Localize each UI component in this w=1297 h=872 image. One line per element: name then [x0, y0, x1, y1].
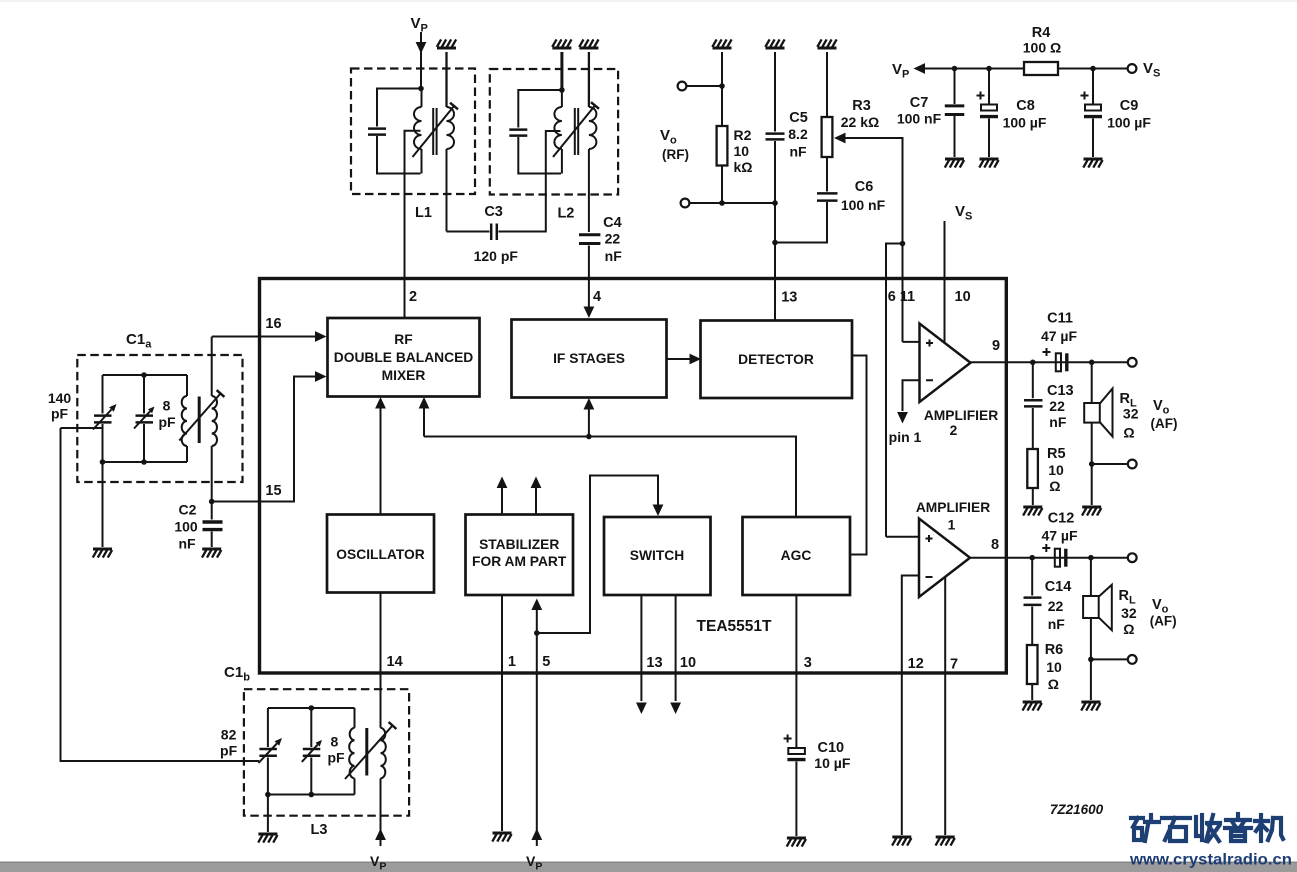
svg-text:www.crystalradio.cn: www.crystalradio.cn — [1129, 852, 1292, 869]
capacitor C7 — [954, 69, 956, 105]
C11 plus sign — [1043, 348, 1051, 356]
ground below pin 7 — [936, 836, 955, 839]
wire speaker to lower terminal — [1091, 423, 1093, 505]
svg-text:13: 13 — [646, 655, 662, 671]
watermark logo text (crystalradio) — [1131, 814, 1283, 841]
ground above R3 — [818, 47, 837, 50]
ground below C9 — [1084, 158, 1103, 161]
C1b junction dots — [309, 705, 315, 711]
svg-text:C8: C8 — [1016, 98, 1035, 114]
L3 secondary / pin 14 wire — [380, 593, 382, 728]
wire C3 to L2 tap — [499, 131, 561, 232]
svg-text:47 µF: 47 µF — [1041, 328, 1078, 344]
svg-text:pF: pF — [327, 749, 345, 765]
svg-text:120 pF: 120 pF — [474, 248, 519, 264]
wire lower terminal to pin13 line — [690, 202, 776, 204]
svg-text:100 Ω: 100 Ω — [1023, 40, 1061, 56]
wire junction to fixed capacitor — [377, 89, 421, 127]
ground below C10 — [787, 837, 806, 840]
svg-text:9: 9 — [992, 338, 1000, 354]
wire ground to R2 — [721, 52, 723, 126]
svg-text:C9: C9 — [1120, 98, 1139, 114]
capacitor C11 (electrolytic, series) — [1056, 353, 1061, 371]
ground below C7 — [945, 158, 964, 161]
svg-text:47 µF: 47 µF — [1041, 528, 1078, 544]
capacitor C8 (electrolytic) — [988, 69, 990, 105]
svg-text:8: 8 — [991, 537, 999, 553]
C1b inner frame top — [268, 707, 355, 709]
wire L1 secondary to C3 — [447, 231, 490, 233]
tuned circuit box L2 (dashed) — [490, 69, 618, 195]
antenna coil secondary — [211, 337, 213, 397]
node pin15/C2 — [209, 499, 215, 505]
svg-text:15: 15 — [265, 483, 281, 499]
variable capacitor 82 pF — [267, 708, 269, 747]
capacitor C6 — [817, 192, 838, 195]
output terminal lower 2 — [1128, 655, 1137, 664]
wire capacitor to tank bottom — [377, 136, 421, 174]
node: L1 top junction — [418, 86, 424, 92]
svg-text:C3: C3 — [484, 204, 503, 220]
block: SWITCH — [604, 517, 711, 595]
svg-text:pin 1: pin 1 — [889, 429, 922, 445]
svg-text:14: 14 — [387, 654, 403, 670]
output terminal upper 2 — [1128, 460, 1137, 469]
svg-text:L2: L2 — [557, 206, 574, 222]
svg-text:C12: C12 — [1048, 511, 1075, 527]
variable capacitor 8 pF (C1b) — [310, 708, 312, 747]
svg-text:32: 32 — [1121, 605, 1137, 621]
ground below C1a — [102, 462, 104, 547]
terminal circle lower — [681, 199, 690, 208]
C1a inner frame top — [103, 374, 188, 376]
svg-text:10: 10 — [1046, 659, 1062, 675]
loudspeaker RL lower — [1090, 558, 1092, 596]
svg-text:R3: R3 — [852, 98, 871, 114]
svg-text:R6: R6 — [1045, 642, 1064, 658]
wire ground to R3 — [826, 52, 828, 117]
ground above C5 — [766, 47, 785, 50]
ground below speaker lower — [1081, 701, 1100, 704]
svg-text:2: 2 — [950, 423, 958, 438]
wire speaker to lower terminal (amp1) — [1090, 618, 1092, 700]
svg-text:100 µF: 100 µF — [1003, 115, 1047, 131]
svg-text:7Z21600: 7Z21600 — [1050, 802, 1104, 817]
svg-text:L1: L1 — [415, 205, 432, 221]
wire pin5 node to SWITCH — [537, 476, 658, 634]
wire pin 11 to amp2 + input — [903, 341, 920, 343]
svg-text:DETECTOR: DETECTOR — [738, 352, 814, 367]
svg-text:OSCILLATOR: OSCILLATOR — [336, 547, 424, 562]
block: DETECTOR — [701, 321, 853, 399]
svg-text:10 µF: 10 µF — [814, 755, 851, 771]
ground below C2 — [202, 548, 221, 551]
variable capacitor 8 pF (C1a) — [143, 375, 145, 414]
svg-text:22: 22 — [1049, 398, 1065, 414]
wire R6 to ground — [1031, 684, 1033, 700]
svg-text:1: 1 — [948, 518, 956, 533]
wire pin 16 from C1a to mixer — [212, 336, 316, 338]
output terminal upper 1 — [1128, 358, 1137, 367]
svg-text:SWITCH: SWITCH — [630, 548, 684, 563]
C12 plus sign — [1042, 544, 1050, 552]
VP arrow into pin 5 — [531, 829, 542, 841]
C1b inner frame bottom — [268, 794, 355, 796]
wire C6 bottom to pin 13 line — [775, 202, 827, 243]
oscillator coil L3 primary — [354, 708, 356, 728]
svg-text:C13: C13 — [1047, 383, 1074, 399]
svg-text:C10: C10 — [818, 740, 845, 756]
amp2 output wire pin 9 — [971, 361, 1128, 363]
wire terminal to R2 top — [687, 85, 723, 87]
capacitor C12 (electrolytic, series) — [1055, 549, 1060, 567]
L3 adjust arrow — [345, 726, 393, 780]
wire C4 to pin 4 and IF STAGES — [588, 246, 590, 308]
svg-text:FOR AM PART: FOR AM PART — [472, 554, 567, 569]
ground above L2 primary — [552, 47, 571, 50]
svg-text:R5: R5 — [1047, 446, 1066, 462]
ground below C1b — [267, 795, 269, 833]
svg-text:Ω: Ω — [1048, 676, 1059, 692]
L1 core — [432, 108, 434, 155]
capacitor in L1 tank — [368, 127, 386, 130]
C10 plus sign — [784, 735, 792, 743]
svg-text:8.2: 8.2 — [788, 126, 808, 142]
svg-text:AMPLIFIER: AMPLIFIER — [916, 500, 990, 515]
wire R2 bottom — [721, 166, 723, 204]
svg-text:(RF): (RF) — [662, 147, 689, 162]
antenna coil adjust arrow — [179, 394, 220, 441]
pin 6 jog — [900, 241, 906, 247]
SWITCH pin 13 wire — [640, 595, 642, 701]
L3 core — [365, 728, 368, 776]
wire junction to L2 fixed capacitor — [518, 90, 562, 128]
bottom gray bar — [0, 862, 1297, 872]
svg-text:2: 2 — [409, 289, 417, 305]
svg-text:16: 16 — [265, 316, 281, 332]
svg-text:7: 7 — [950, 657, 958, 673]
svg-text:nF: nF — [789, 144, 807, 160]
VS terminal — [1128, 64, 1137, 73]
wire 140pF input — [61, 427, 103, 429]
svg-text:Ω: Ω — [1049, 478, 1060, 494]
svg-text:nF: nF — [1048, 616, 1066, 632]
svg-text:82: 82 — [221, 727, 237, 743]
ground below C8 — [980, 158, 999, 161]
ground above L1 secondary — [437, 47, 456, 50]
VP arrow — [914, 63, 926, 74]
svg-text:nF: nF — [1049, 414, 1067, 430]
wire VS to pin 10 / AMPLIFIER 2 — [944, 221, 946, 342]
tuned circuit box L1 (dashed) — [351, 69, 475, 195]
wire VP down to L1 — [420, 32, 422, 89]
node C14 tap (lower) — [1029, 555, 1035, 561]
svg-text:10: 10 — [680, 655, 696, 671]
capacitor C10 (electrolytic) — [788, 748, 805, 754]
svg-text:(AF): (AF) — [1150, 614, 1177, 629]
svg-text:22: 22 — [605, 231, 621, 247]
svg-text:4: 4 — [593, 289, 601, 305]
svg-text:10: 10 — [1048, 462, 1064, 478]
resistor R6 — [1027, 645, 1038, 684]
C8 plus sign — [977, 92, 985, 100]
wire capacitor to L2 tank bottom — [518, 137, 561, 174]
svg-text:Ω: Ω — [1123, 425, 1134, 441]
wire ground to L2 top junction — [560, 52, 563, 90]
capacitor C5 — [766, 132, 785, 135]
svg-text:100 nF: 100 nF — [841, 197, 886, 213]
svg-text:STABILIZER: STABILIZER — [479, 537, 559, 552]
svg-text:R2: R2 — [734, 127, 752, 143]
wire amp2 - input to pin 1 arrow — [903, 380, 920, 411]
block: AGC — [743, 517, 851, 595]
C9 plus sign — [1081, 92, 1089, 100]
DETECTOR to AGC wire — [850, 356, 867, 555]
block: OSCILLATOR — [327, 515, 434, 593]
svg-text:6: 6 — [888, 289, 896, 305]
svg-text:C5: C5 — [789, 110, 808, 126]
L2 secondary winding — [588, 52, 590, 107]
L1 tap wire to pin 2 — [405, 131, 421, 318]
ground above L2 secondary — [579, 47, 598, 50]
svg-text:12: 12 — [908, 656, 924, 672]
antenna coil core — [198, 397, 201, 444]
svg-text:MIXER: MIXER — [382, 368, 426, 383]
node C13 tap (upper) — [1030, 360, 1036, 366]
svg-text:10: 10 — [734, 143, 750, 159]
svg-text:C4: C4 — [603, 215, 622, 231]
AGC pin 3 wire — [795, 595, 797, 747]
inductor L2 primary winding — [561, 90, 563, 107]
SWITCH pin 10 wire — [675, 595, 677, 701]
svg-text:32: 32 — [1123, 406, 1139, 422]
node R2 top — [719, 83, 725, 89]
svg-text:pF: pF — [158, 414, 176, 430]
node feedback / IF arrow — [586, 434, 592, 440]
node C9 — [1090, 66, 1096, 72]
C1a inner frame bottom — [103, 461, 188, 463]
block: RF DOUBLE BALANCED MIXER — [328, 318, 480, 397]
op-amp AMPLIFIER 1 — [919, 519, 970, 598]
svg-text:Ω: Ω — [1123, 621, 1134, 637]
svg-text:IF STAGES: IF STAGES — [553, 351, 625, 366]
svg-text:3: 3 — [804, 655, 812, 671]
svg-text:pF: pF — [220, 743, 238, 759]
svg-text:140: 140 — [48, 390, 72, 406]
svg-text:C11: C11 — [1047, 311, 1073, 327]
svg-text:10: 10 — [955, 289, 971, 305]
ground below speaker upper — [1082, 506, 1101, 509]
node pin 5 — [534, 630, 540, 636]
svg-text:(AF): (AF) — [1151, 416, 1178, 431]
OSCILLATOR to MIXER arrow — [380, 408, 382, 515]
variable capacitor 140 pF — [102, 375, 104, 414]
op-amp AMPLIFIER 2 — [920, 324, 971, 403]
svg-text:22 kΩ: 22 kΩ — [841, 114, 879, 130]
resistor R2 — [717, 126, 728, 166]
wire pin 15 from C2 node to mixer — [213, 377, 316, 502]
wire amp1 - input to pin 12 — [902, 576, 919, 836]
capacitor C13 — [1032, 362, 1034, 398]
AGC feedback wire — [424, 437, 796, 518]
resistor R3 (adjustable) — [822, 117, 833, 157]
ground above R2 — [713, 47, 732, 50]
L2 core — [574, 108, 576, 155]
svg-text:100 µF: 100 µF — [1107, 115, 1151, 131]
svg-text:100 nF: 100 nF — [897, 111, 942, 127]
capacitor C2 — [211, 502, 213, 520]
IC TEA5551T outline — [260, 279, 1007, 674]
arrow AGC feedback into IF STAGES — [588, 409, 590, 437]
svg-text:nF: nF — [605, 248, 623, 264]
block: IF STAGES — [512, 320, 667, 398]
antenna coil primary (C1a) — [186, 375, 188, 396]
pin 5 wire with VP supply — [536, 610, 538, 847]
wire R3 to C6 — [826, 157, 828, 192]
svg-text:DOUBLE BALANCED: DOUBLE BALANCED — [334, 350, 474, 365]
loudspeaker RL upper — [1091, 362, 1093, 403]
capacitor C9 (electrolytic) — [1092, 69, 1094, 105]
ground below pin 1 — [493, 832, 512, 835]
output terminal lower 1 — [1128, 553, 1137, 562]
L2 adjustable-core arrow — [553, 106, 595, 158]
capacitor C4 — [579, 233, 600, 236]
wire C5 to pin 13 (DETECTOR) — [774, 141, 776, 321]
svg-text:kΩ: kΩ — [734, 159, 753, 175]
capacitor C3 — [490, 224, 493, 241]
svg-text:nF: nF — [178, 536, 196, 552]
wire pin 6 to amp1 + input — [886, 536, 919, 538]
ground below pin 12 — [892, 836, 911, 839]
IF STAGES to DETECTOR arrow — [667, 358, 695, 360]
svg-text:C14: C14 — [1045, 579, 1072, 595]
gang capacitor C1a box (dashed) — [77, 355, 242, 482]
svg-text:L3: L3 — [311, 822, 328, 838]
inductor L1 primary winding — [421, 89, 423, 107]
resistor R5 — [1027, 449, 1038, 488]
svg-text:C7: C7 — [910, 95, 929, 111]
amp1 pin 7 wire — [944, 578, 946, 836]
arrow AGC feedback into MIXER — [423, 408, 425, 437]
svg-text:RF: RF — [394, 332, 412, 347]
wire 140pF terminal down to C1b 82pF — [61, 428, 260, 761]
svg-text:13: 13 — [781, 290, 797, 306]
svg-text:8: 8 — [331, 733, 339, 749]
svg-text:22: 22 — [1048, 598, 1064, 614]
R3 wiper arrow and wire to pin 6/11 — [834, 133, 846, 144]
terminal circle upper — [678, 82, 687, 91]
svg-text:5: 5 — [542, 654, 550, 670]
svg-text:C2: C2 — [179, 502, 197, 518]
wire R5 to ground — [1032, 488, 1034, 505]
node C7 — [952, 66, 958, 72]
svg-text:AMPLIFIER: AMPLIFIER — [924, 408, 998, 423]
capacitor C14 — [1031, 558, 1033, 596]
capacitor in L2 tank — [509, 128, 527, 131]
svg-text:100: 100 — [174, 519, 198, 535]
pin 1 wire from STABILIZER to ground — [501, 595, 503, 831]
amp1 output wire pin 8 — [970, 557, 1128, 559]
wire ground to C5 — [774, 52, 776, 132]
L1 adjustable-core arrow — [413, 106, 455, 157]
svg-text:1: 1 — [508, 654, 516, 670]
node C8 — [986, 66, 992, 72]
svg-text:C6: C6 — [855, 179, 874, 195]
L1 secondary winding — [445, 52, 447, 107]
svg-text:8: 8 — [163, 398, 171, 414]
node: L2 top junction — [559, 87, 565, 93]
STABILIZER output arrows — [501, 487, 503, 515]
supply rail wire — [925, 68, 1128, 70]
C1a junction dots — [141, 372, 147, 378]
resistor R4 — [1024, 62, 1058, 75]
svg-text:pF: pF — [51, 406, 69, 422]
svg-text:TEA5551T: TEA5551T — [697, 618, 772, 635]
block: STABILIZER FOR AM PART — [466, 515, 574, 596]
VP arrow into L3 — [375, 829, 386, 841]
svg-text:11: 11 — [900, 289, 915, 305]
gang capacitor C1b box (dashed) — [244, 689, 409, 816]
svg-text:AGC: AGC — [781, 548, 812, 563]
